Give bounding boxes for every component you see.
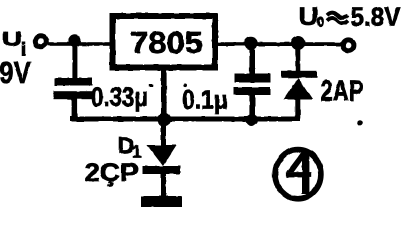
svg-text:5.8V: 5.8V xyxy=(351,4,401,32)
svg-text:0.33μ: 0.33μ xyxy=(91,82,148,112)
svg-text:U: U xyxy=(2,29,22,51)
svg-text:2AP: 2AP xyxy=(321,76,364,108)
svg-text:0.1μ: 0.1μ xyxy=(182,85,228,115)
svg-text:2ÇP: 2ÇP xyxy=(85,159,139,187)
svg-text:9V: 9V xyxy=(0,56,31,90)
svg-text:7805: 7805 xyxy=(130,26,203,60)
svg-text:o: o xyxy=(317,11,324,30)
svg-text:U: U xyxy=(299,3,319,31)
